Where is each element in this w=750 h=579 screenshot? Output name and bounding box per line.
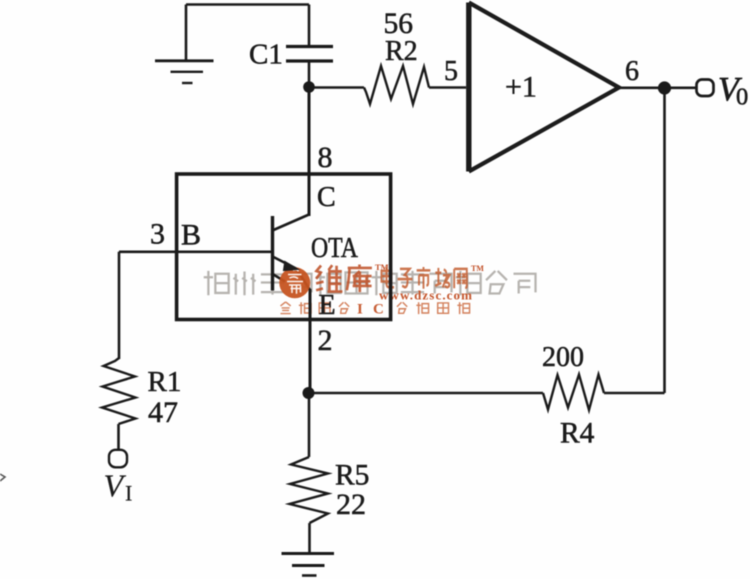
transistor Q1 emitter arrowhead: [284, 262, 298, 270]
wire node C to R4: [309, 392, 543, 395]
wire ground drop: [185, 5, 188, 61]
terminal V0 open circle: [697, 80, 714, 97]
resistor R1: [102, 358, 136, 424]
svg-text:3: 3: [150, 218, 165, 251]
resistor R4: [543, 375, 604, 411]
wire R1 to terminal V1: [117, 424, 120, 450]
OTA box U2: [177, 174, 391, 320]
ground top-left: [155, 61, 214, 83]
svg-text:22: 22: [336, 488, 366, 521]
transistor Q1 bar: [271, 216, 274, 291]
svg-text:R5: R5: [335, 460, 369, 492]
wire R4 right to corner: [604, 392, 665, 395]
wire C1 bottom lead to node A: [308, 62, 311, 87]
wire output vertical down right side: [663, 88, 666, 393]
wire pin 3 vertical down to R1: [118, 252, 121, 359]
wire pin 8 node A to OTA box: [308, 88, 311, 217]
wire node A to R2: [309, 86, 364, 89]
watermark logo circle: [279, 267, 310, 298]
svg-text:+1: +1: [505, 71, 537, 104]
svg-text:5: 5: [444, 56, 458, 87]
op-amp U1 buffer: [469, 3, 619, 172]
ground bottom: [282, 554, 335, 576]
node B output junction dot: [658, 81, 671, 94]
transistor Q1 second emitter stroke: [273, 274, 286, 282]
svg-text:R4: R4: [560, 418, 595, 450]
svg-text:2: 2: [318, 324, 333, 357]
wire top horizontal from ground to C1: [186, 3, 309, 6]
wire base pin 3 out of box: [119, 251, 178, 254]
wire op-amp output pin 6 to terminal: [619, 87, 696, 90]
svg-text:6: 6: [625, 56, 639, 87]
watermark red slogan 全球最大IC采购网站: [280, 302, 349, 314]
transistor Q1 collector diagonal: [274, 215, 310, 231]
svg-text:R2: R2: [385, 36, 418, 67]
node C feedback junction dot: [303, 387, 315, 399]
wire pin 2 below OTA to node C: [309, 289, 312, 393]
svg-text:B: B: [181, 219, 201, 252]
watermark red brand 维库: [316, 265, 372, 293]
wire R2 to op-amp pin 5: [429, 86, 466, 89]
svg-text:www.dzsc.com: www.dzsc.com: [379, 288, 473, 303]
svg-text:200: 200: [542, 342, 584, 373]
svg-text:E: E: [319, 290, 336, 321]
wire R5 to ground: [308, 523, 311, 552]
wire C1 top lead: [308, 5, 311, 46]
edge artifact left: [0, 474, 5, 481]
wire node C to R5: [308, 393, 311, 457]
svg-text:C: C: [317, 182, 336, 213]
svg-text:C1: C1: [249, 39, 283, 71]
capacitor C1: [286, 47, 333, 62]
resistor R5: [290, 457, 329, 523]
svg-text:8: 8: [318, 141, 333, 174]
terminal V1 open circle: [109, 450, 127, 468]
svg-text:0: 0: [736, 84, 748, 111]
svg-text:C: C: [373, 302, 384, 318]
resistor R2: [364, 66, 429, 104]
svg-text:I: I: [125, 481, 132, 506]
svg-text:TM: TM: [471, 264, 484, 273]
svg-text:OTA: OTA: [311, 233, 358, 264]
watermark gray text 杭州维库信息技术有限公司: [204, 271, 536, 295]
svg-text:I: I: [357, 302, 363, 318]
node A junction dot: [303, 81, 315, 93]
transistor Q1 base line: [178, 251, 271, 254]
watermark red 电子市场网: [381, 267, 466, 289]
svg-text:R1: R1: [148, 366, 182, 398]
svg-text:47: 47: [148, 396, 178, 429]
svg-text:V: V: [104, 468, 127, 504]
transistor Q1 emitter line: [273, 257, 311, 291]
